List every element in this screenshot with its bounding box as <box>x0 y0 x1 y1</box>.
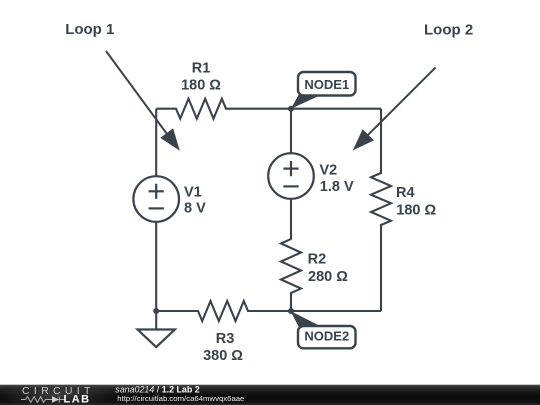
svg-text:180 Ω: 180 Ω <box>396 203 436 219</box>
svg-text:LAB: LAB <box>64 394 91 405</box>
svg-text:180 Ω: 180 Ω <box>181 78 221 94</box>
svg-text:Loop 2: Loop 2 <box>424 21 473 38</box>
svg-text:http://circuitlab.com/ca64mwvq: http://circuitlab.com/ca64mwvqx6aae <box>117 394 244 403</box>
svg-text:280 Ω: 280 Ω <box>308 269 348 285</box>
svg-text:Loop 1: Loop 1 <box>65 21 114 38</box>
svg-text:NODE2: NODE2 <box>304 329 349 344</box>
svg-text:8 V: 8 V <box>184 201 206 217</box>
svg-text:R4: R4 <box>396 185 415 201</box>
svg-text:V1: V1 <box>184 184 202 200</box>
svg-text:R1: R1 <box>192 61 211 77</box>
svg-text:R3: R3 <box>216 331 235 347</box>
svg-text:V2: V2 <box>320 163 338 179</box>
svg-text:380 Ω: 380 Ω <box>203 348 243 364</box>
svg-text:R2: R2 <box>308 252 327 268</box>
svg-text:NODE1: NODE1 <box>304 77 349 92</box>
svg-text:1.8 V: 1.8 V <box>320 179 354 195</box>
